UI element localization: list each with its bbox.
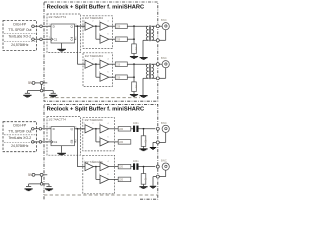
svg-text:BNC: BNC xyxy=(161,159,167,163)
svg-text:DIGI-FP: DIGI-FP xyxy=(13,23,26,27)
svg-text:TTL SPDIF Out: TTL SPDIF Out xyxy=(8,129,31,133)
svg-text:1/2 74ACT74: 1/2 74ACT74 xyxy=(48,15,66,19)
svg-text:Reclock + Split Buffer f. mini: Reclock + Split Buffer f. miniSHARC xyxy=(47,107,145,113)
svg-text:1/2 74HCU04: 1/2 74HCU04 xyxy=(85,16,104,20)
svg-text:TentLabs XO-2: TentLabs XO-2 xyxy=(8,35,31,39)
svg-text:24,576MHz: 24,576MHz xyxy=(11,144,29,148)
svg-text:C1: C1 xyxy=(54,140,58,144)
svg-text:1/2 74HCU04: 1/2 74HCU04 xyxy=(84,118,103,122)
svg-text:TentLabs XO-2: TentLabs XO-2 xyxy=(8,136,31,140)
svg-text:BNC: BNC xyxy=(161,121,167,125)
svg-text:BNC: BNC xyxy=(161,18,167,22)
svg-text:1/2 74ACT74: 1/2 74ACT74 xyxy=(48,118,66,122)
svg-text:Reclock + Split Buffer f. mini: Reclock + Split Buffer f. miniSHARC xyxy=(47,4,145,10)
svg-text:BNC: BNC xyxy=(161,56,167,60)
svg-text:1/2 74HCU04: 1/2 74HCU04 xyxy=(85,54,104,58)
svg-text:DIGI-FP: DIGI-FP xyxy=(13,124,26,128)
svg-text:C1: C1 xyxy=(54,38,58,42)
svg-text:TTL SPDIF Out: TTL SPDIF Out xyxy=(8,28,31,32)
svg-text:100n: 100n xyxy=(133,160,139,163)
svg-text:24,576MHz: 24,576MHz xyxy=(11,43,29,47)
svg-text:100n: 100n xyxy=(133,122,139,125)
